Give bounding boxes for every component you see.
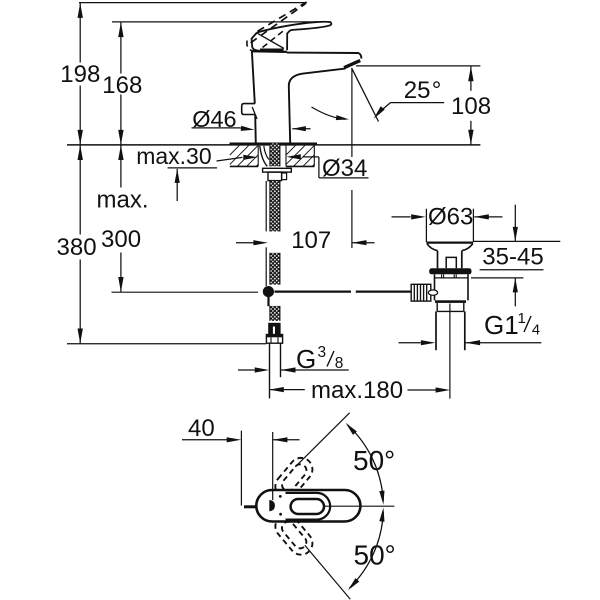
hose crimp fitting [268, 323, 280, 335]
svg-text:3: 3 [318, 344, 327, 361]
svg-text:50: 50 [353, 445, 384, 476]
25deg leader [374, 103, 445, 119]
lever handle solid [252, 22, 332, 51]
drain neck [438, 251, 462, 269]
plan body stadium [256, 490, 360, 522]
plan handle outline [286, 493, 331, 520]
drain gasket [429, 268, 471, 274]
drain extension lines O63 [426, 209, 473, 242]
svg-text:50: 50 [354, 540, 385, 571]
mounting nut [268, 172, 287, 181]
svg-text:4: 4 [532, 321, 540, 338]
label O34 with leader [286, 154, 368, 182]
svg-text:40: 40 [188, 415, 215, 442]
svg-text:300: 300 [101, 226, 141, 253]
plan extension lines 40 [241, 431, 272, 506]
horizontal pop-up rod [112, 291, 412, 294]
dimension G1 1/4 [399, 310, 542, 346]
braided hose segment 3 [270, 306, 280, 321]
drain lift knob [446, 257, 456, 268]
svg-text:168: 168 [102, 72, 142, 99]
dimension G3/8 [238, 344, 349, 374]
dimension max180 [269, 377, 450, 404]
counter hatching left block [230, 146, 258, 167]
basin lower reference line [471, 277, 523, 279]
svg-text:108: 108 [451, 93, 491, 120]
extension line top of raised handle [79, 2, 307, 4]
dimension 107 [236, 227, 375, 254]
countertop surface line [67, 144, 480, 146]
dimension O63 [392, 204, 503, 231]
plan handle rotated up dashed [271, 453, 318, 502]
drain body bottom [435, 300, 466, 303]
plan radial line upper [295, 413, 349, 467]
svg-text:G: G [296, 344, 316, 374]
horseshoe washer [263, 168, 292, 172]
dimension 380 [57, 145, 97, 344]
svg-text:max.30: max.30 [136, 143, 211, 169]
dimension max30 [136, 143, 258, 201]
hose bend in counter hole [260, 143, 280, 166]
plan arc upper 50deg [346, 423, 385, 505]
label 50deg upper [353, 445, 395, 476]
drain body [435, 274, 469, 300]
dimension max300 [97, 145, 149, 292]
svg-text:Ø63: Ø63 [428, 204, 473, 231]
svg-text:25: 25 [404, 77, 431, 104]
plan center line [324, 505, 394, 507]
drain plug cap [426, 243, 473, 251]
dimension 168 [102, 22, 142, 145]
svg-text:8: 8 [335, 355, 344, 372]
plan handle slot [291, 499, 324, 514]
drain pivot nut [411, 284, 437, 301]
plan dashed cap dots [279, 495, 282, 516]
dimension O46 [192, 106, 311, 132]
pop-up rod tee joint [263, 286, 274, 306]
extension line top of handle [112, 21, 331, 23]
label 50deg lower [354, 540, 396, 571]
svg-text:max.: max. [97, 187, 149, 214]
braided hose segment 2 [266, 247, 280, 286]
plan radial line lower [305, 545, 351, 599]
aerator face 25deg [344, 61, 360, 68]
25deg arc with arrow [312, 107, 350, 120]
drain lower band [437, 303, 464, 312]
plan supply stub [244, 505, 257, 508]
svg-text:°: ° [432, 77, 442, 104]
svg-text:°: ° [384, 445, 395, 476]
faucet body outline [252, 51, 362, 143]
lever handle raised dashed [247, 2, 307, 52]
svg-text:1: 1 [518, 310, 526, 327]
faucet base plate thick line [230, 142, 318, 145]
label 25deg [404, 77, 442, 104]
threaded shank braided segment 1 [266, 181, 280, 232]
25deg slanted line [352, 68, 379, 121]
extension line spout outlet [356, 65, 480, 67]
counter hatching right block [286, 146, 314, 167]
dimension 198 [60, 3, 100, 145]
reference line hose end [67, 343, 266, 345]
dimension 40 [182, 415, 300, 442]
drain center line [449, 304, 451, 399]
drain tailpipe [436, 311, 465, 350]
svg-text:198: 198 [60, 61, 100, 88]
svg-text:380: 380 [57, 234, 97, 261]
plan supply hole [269, 500, 275, 511]
svg-text:35-45: 35-45 [482, 244, 543, 271]
svg-text:G1: G1 [484, 310, 519, 340]
svg-text:107: 107 [291, 227, 331, 254]
G3/8 nut [266, 335, 282, 344]
basin reference line [474, 240, 561, 242]
dimension 108 [451, 66, 491, 144]
plan handle rotated down dashed [271, 510, 318, 559]
plan arc lower 50deg [348, 508, 385, 591]
supply pipe end [270, 343, 281, 398]
pop-up pull rod knob [242, 104, 257, 119]
svg-text:max.180: max.180 [311, 377, 403, 404]
25deg vertical reference line [351, 68, 353, 248]
svg-text:°: ° [385, 540, 396, 571]
dimension 35-45 [480, 205, 544, 307]
